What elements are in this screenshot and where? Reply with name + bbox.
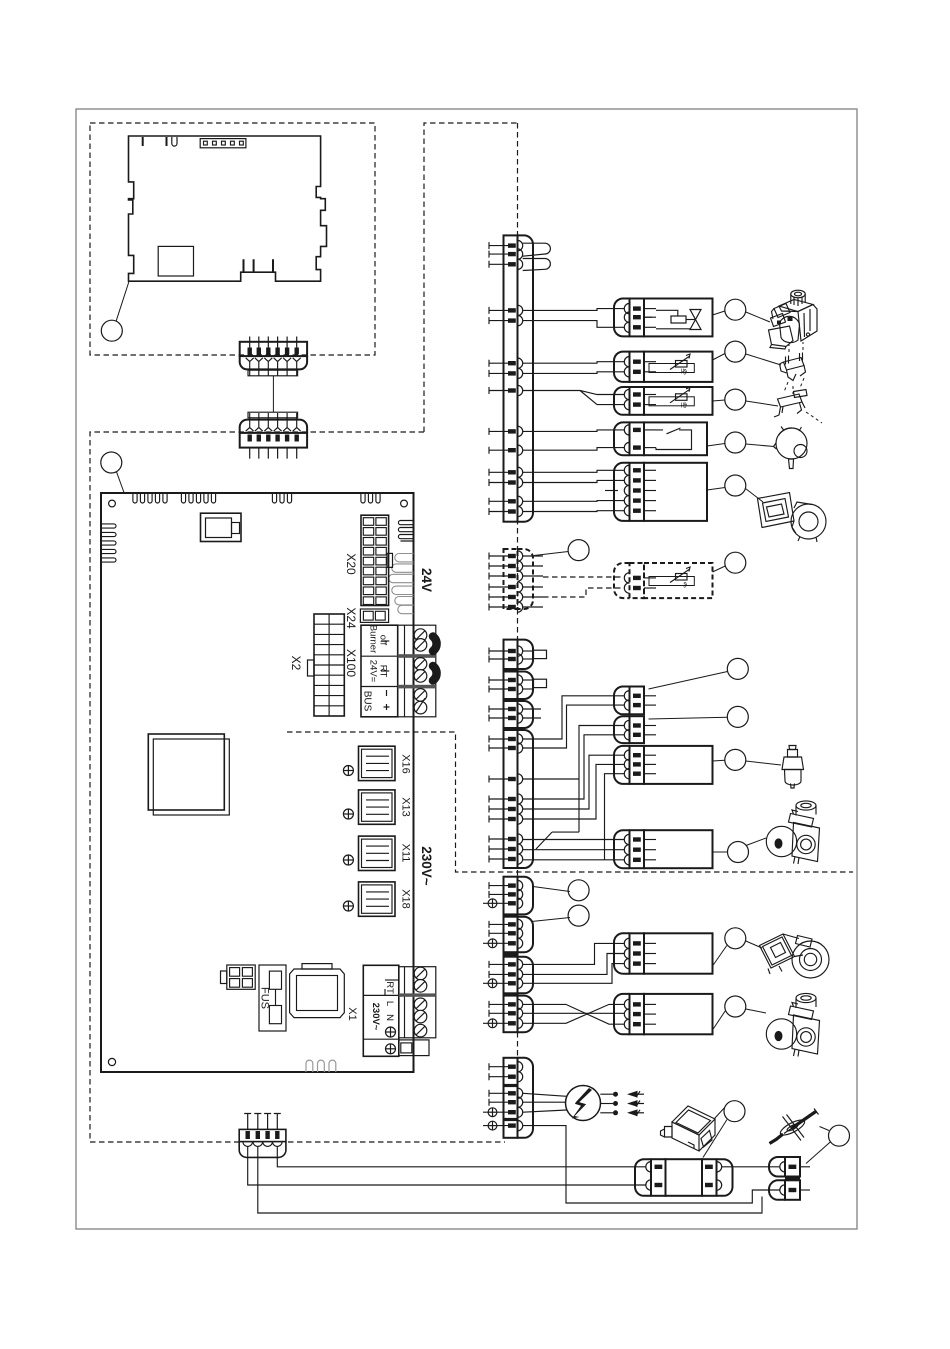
connector X38 shell xyxy=(518,957,534,994)
X36 pin xyxy=(483,898,523,908)
wire X35-1 to P7 xyxy=(523,696,625,739)
X40 pin xyxy=(489,1097,523,1107)
pressure switch plug pin 1 xyxy=(624,425,656,435)
leader P5-K5 xyxy=(707,488,725,491)
leader P3-K3 xyxy=(713,400,725,401)
fan 230V plug P11 pin 1 xyxy=(624,938,656,948)
callout circle 2 main board xyxy=(101,452,122,473)
fan 230V plug P11 pin 2 xyxy=(624,948,656,958)
leader K11-pump xyxy=(746,838,766,846)
module A1 top edge pin tab pair xyxy=(166,137,168,146)
display connector X43 mask xyxy=(239,1139,287,1145)
callout circle K5 fan xyxy=(725,475,746,496)
svg-text:X18: X18 xyxy=(400,889,412,909)
ignition electrode component xyxy=(770,1109,819,1144)
svg-text:N: N xyxy=(384,1014,395,1021)
pump plug P10 shell xyxy=(614,830,630,868)
header X24 xyxy=(360,609,388,622)
svg-text:24V: 24V xyxy=(419,568,434,592)
X38 pin xyxy=(489,959,523,969)
earth X18 xyxy=(343,901,353,911)
main board outline xyxy=(101,493,414,1072)
svg-text:RT: RT xyxy=(378,665,389,678)
X40 pin xyxy=(489,1062,523,1072)
connector B2 pins xyxy=(250,448,297,459)
header X20 xyxy=(361,515,389,605)
fan plug pin 2 xyxy=(624,475,656,485)
valve plug P9 shell xyxy=(614,746,630,784)
X51 pin 13 xyxy=(489,496,523,506)
mounting hole top right xyxy=(401,500,408,507)
pump component P10 xyxy=(766,801,819,864)
dashed enclosure accessory module box xyxy=(90,123,375,355)
gas valve plug pin 1 xyxy=(624,303,656,313)
connector separator xyxy=(503,1084,519,1087)
svg-text:FUS: FUS xyxy=(259,987,271,1009)
X32 pin 2 xyxy=(489,654,523,664)
connector X35 shell xyxy=(518,730,534,868)
jumper plug P8 shell xyxy=(614,716,630,743)
valve plug P9 pin 3 xyxy=(624,769,656,779)
wire X38-2 to P11 xyxy=(523,954,625,975)
callout circle K2 flue sensor xyxy=(725,341,746,362)
callout circle K16 transformer xyxy=(724,1101,745,1122)
X34 pin 1 xyxy=(489,704,523,714)
pump 230V plug P12 pin 3 xyxy=(624,1019,656,1029)
dashed main control box boundary xyxy=(90,432,505,1142)
lightning bolt xyxy=(572,1088,592,1119)
pump 230V plug P12 pin 1 xyxy=(624,999,656,1009)
X35 pin 4 xyxy=(489,794,523,804)
wire X35-8 to P10 xyxy=(523,849,625,851)
X35 pin 5 xyxy=(489,804,523,814)
solder comb group 4 xyxy=(361,493,380,503)
solder comb left edge xyxy=(101,524,116,562)
adapter chain housing xyxy=(666,1159,703,1196)
leader K17 to electrode xyxy=(820,1127,830,1131)
X34 pin 2 xyxy=(489,713,523,723)
wire X51-8 fork to sensor plug xyxy=(523,391,625,405)
flue sensor plug pin 1 xyxy=(624,357,656,367)
callout circle K7 outdoor sensor xyxy=(725,552,746,573)
outdoor sensor plug pin 1 xyxy=(624,573,656,583)
svg-text:230V~: 230V~ xyxy=(370,1003,381,1031)
svg-text:X2: X2 xyxy=(289,656,303,671)
terminal block BUS RT xyxy=(361,625,398,717)
leader line callout 1 xyxy=(116,282,129,321)
solder comb group 1 xyxy=(133,493,167,503)
wire X40 to spark generator a xyxy=(523,1093,567,1096)
dashed 24V column boundary xyxy=(424,123,518,432)
screw block upper xyxy=(398,625,436,717)
shorting link 1 xyxy=(523,243,551,256)
wire X38-3 to P11 xyxy=(523,964,625,984)
earth X11 xyxy=(343,855,353,865)
spark generator symbol xyxy=(566,1086,601,1121)
wire X33 jumper stub b xyxy=(523,688,534,690)
wire X40 to spark generator c xyxy=(523,1110,567,1112)
leader K1-valve xyxy=(746,312,770,322)
leader P11-K14 xyxy=(713,946,727,967)
wire X35-4 to P8 xyxy=(523,735,625,799)
fan 230V plug P11 shell xyxy=(614,933,630,973)
connector B1 shell xyxy=(240,356,307,369)
edge castellation fingers xyxy=(389,554,414,614)
X39 pin xyxy=(489,999,523,1009)
gas valve plug housing xyxy=(644,299,713,337)
chain left pin xyxy=(646,1162,651,1172)
connector B2 contacts xyxy=(246,413,301,431)
transformer block xyxy=(148,734,224,810)
jumper plug P8 pin 2 xyxy=(624,730,656,740)
fan plug housing xyxy=(644,463,707,521)
capacitor block xyxy=(290,964,345,1018)
X51 pin 14 xyxy=(489,506,523,516)
valve plug P9 housing xyxy=(644,746,713,784)
leader K16 to chain xyxy=(703,1120,727,1158)
connector X40 shell xyxy=(518,1058,534,1138)
module A1 top edge pin tab xyxy=(142,137,144,146)
X51 pin 4 xyxy=(489,305,523,315)
wire X34 stub a xyxy=(523,708,541,710)
svg-text:X24: X24 xyxy=(344,607,358,629)
wire X34 stub b xyxy=(523,717,541,719)
adapter chain left shell xyxy=(635,1159,651,1196)
module A1 chip xyxy=(158,246,193,276)
pressure switch plug pin 2 xyxy=(624,442,656,452)
callout circle K8 jumper1 xyxy=(727,658,748,679)
callout circle K1 gas valve xyxy=(725,299,746,320)
svg-text:230V~: 230V~ xyxy=(419,846,434,886)
chain left pin xyxy=(646,1180,651,1190)
X35 pin 1 xyxy=(489,734,523,744)
X35 pin 8 xyxy=(489,844,523,854)
module A1 bottom pins xyxy=(244,259,274,272)
leader line callout 2 xyxy=(117,472,125,493)
X38 pin xyxy=(483,978,523,988)
X43 pins xyxy=(244,1114,281,1130)
RP separator xyxy=(785,1177,800,1180)
wire X51-9 to pressure switch xyxy=(523,430,625,432)
connector separator xyxy=(503,993,519,996)
spark arrow xyxy=(629,1112,644,1114)
solenoid actuator component xyxy=(782,746,804,789)
module A1 header pin 3 xyxy=(222,141,226,145)
connector separator xyxy=(503,669,519,672)
callout circle K11 pump xyxy=(728,842,749,863)
chain right pin xyxy=(717,1162,722,1172)
X32 pin 1 xyxy=(489,646,523,656)
dashed 230V zone divider left xyxy=(287,732,853,872)
outdoor sensor plug housing xyxy=(644,563,713,598)
X36 pin xyxy=(489,889,523,899)
flanged pump component P11 xyxy=(760,934,830,978)
screw 4 xyxy=(414,670,427,683)
callout circle K12 xyxy=(568,880,589,901)
X31 pin 2 xyxy=(489,561,523,571)
module A1 header pin 5 xyxy=(240,141,244,145)
thermistor symbol P6 xyxy=(649,577,694,586)
module A1 header connector xyxy=(200,139,246,148)
dashed wire X31 to outdoor sensor b xyxy=(543,588,625,597)
spark output wire xyxy=(600,1112,613,1114)
leader K17 to plug xyxy=(806,1142,831,1164)
leader P10-K11 xyxy=(713,851,728,853)
screw X1-5 xyxy=(414,1024,427,1037)
spark arrow xyxy=(629,1103,644,1105)
callout circle K14 fan230 xyxy=(725,928,746,949)
switch contact symbol xyxy=(656,428,692,450)
lower block X1 xyxy=(399,1040,429,1056)
screw 1 xyxy=(414,629,427,642)
dashed net 24V rail vertical xyxy=(517,123,519,1058)
callout circle 1 module xyxy=(101,320,122,341)
leader K5-fan xyxy=(746,489,764,503)
wire hook 1 xyxy=(433,637,437,652)
fuse holder FUS xyxy=(259,965,286,1031)
earth X1 row2 xyxy=(386,1027,396,1037)
X31 pin 1 xyxy=(489,551,523,561)
X35 pin 7 xyxy=(489,834,523,844)
jumper plug P7 pin 2 xyxy=(624,700,656,710)
relay connector X11 xyxy=(359,836,396,870)
adapter chain right bar xyxy=(702,1159,717,1196)
svg-text:μ: μ xyxy=(681,402,685,408)
thermistor symbol P3 xyxy=(649,397,694,406)
X37 pin xyxy=(483,938,523,948)
relay connector X18 xyxy=(359,882,396,916)
wire X51-5 to gas valve plug xyxy=(523,321,625,328)
module A1 header pin 1 xyxy=(204,141,208,145)
wire X32 jumper stub b xyxy=(523,658,534,660)
connector B2 bar xyxy=(240,433,307,448)
outdoor sensor plug pin 2 xyxy=(624,583,656,593)
wire chain to electrode plug xyxy=(722,1166,780,1168)
leader P4-K4 xyxy=(707,444,725,447)
spark output wire xyxy=(600,1093,613,1095)
screw X1-1 xyxy=(414,967,427,980)
flue sensor plug shell xyxy=(614,352,630,382)
X38 pin xyxy=(489,969,523,979)
minus sign xyxy=(386,690,388,696)
electrode plug RP1 shell xyxy=(769,1157,785,1177)
pump plug P10 pin 2 xyxy=(624,845,656,855)
wire X33 jumper stub a xyxy=(523,679,534,681)
phone jack connector xyxy=(201,513,242,541)
gas valve coil symbol xyxy=(656,310,678,316)
X37 pin xyxy=(489,928,523,938)
earth X13 xyxy=(343,809,353,819)
wire X32 jumper stub a xyxy=(523,650,534,652)
screw block X1 xyxy=(399,967,436,1038)
pump plug P10 housing xyxy=(644,830,713,868)
connector B1 pins xyxy=(250,337,297,357)
X35 pin 3 xyxy=(489,774,523,784)
connector separator xyxy=(503,727,519,730)
shorting link 2 xyxy=(523,259,551,271)
wire X39-1 cross to P12 xyxy=(523,1004,625,1024)
wire X51-4 to gas valve plug xyxy=(523,309,625,311)
svg-text:24V=: 24V= xyxy=(368,660,379,683)
connector B1 bar xyxy=(240,342,307,356)
heating sensor plug housing xyxy=(644,387,713,415)
valve plug P9 pin 2 xyxy=(624,759,656,769)
fan component xyxy=(758,493,827,543)
air pressure switch component xyxy=(774,427,808,469)
border frame xyxy=(76,109,857,1229)
wire X43 long run xyxy=(258,1146,762,1213)
chain right pin xyxy=(717,1180,722,1190)
callout circle K15 pump230 xyxy=(725,996,746,1017)
X40 pin xyxy=(483,1107,523,1117)
electrode plug RP2 pin xyxy=(780,1185,785,1195)
wire X35-9 to P10 xyxy=(523,859,625,861)
svg-text:Burner: Burner xyxy=(368,625,379,654)
svg-text:μ: μ xyxy=(681,368,685,374)
jumper plug P7 pin 1 xyxy=(624,691,656,701)
display connector X43 shell xyxy=(239,1142,286,1158)
svg-text:ϑ: ϑ xyxy=(683,583,687,590)
jumper link X32 xyxy=(534,650,547,658)
connector separator xyxy=(503,914,519,917)
X40 pin xyxy=(489,1088,523,1098)
connector B2 base comb xyxy=(248,412,298,418)
mounting hole bottom left xyxy=(108,1058,115,1065)
electrode plug RP2 shell xyxy=(769,1180,785,1200)
callout circle K9 jumper2 xyxy=(727,706,748,727)
leader K3-clamp xyxy=(746,401,778,406)
X36 pin xyxy=(489,880,523,890)
X35 pin 2 xyxy=(489,743,523,753)
wire X40 earth to ignition plug xyxy=(523,1126,780,1203)
X51 pin 7 xyxy=(489,368,523,378)
wire X35-5 to P9 xyxy=(523,755,625,809)
fan plug shell xyxy=(614,463,630,521)
optional connector X31 shell xyxy=(518,549,534,609)
pump plug P10 pin 1 xyxy=(624,834,656,844)
screw 5 xyxy=(414,689,427,702)
X51 pin 6 xyxy=(489,358,523,368)
wire riser to P9 pin3 xyxy=(605,774,625,860)
jumper connector X32 shell xyxy=(518,640,534,669)
jumper plug P7 shell xyxy=(614,687,630,715)
X51 pin 1 xyxy=(489,240,523,250)
flue sensor plug pin 2 xyxy=(624,367,656,377)
leader X37-K13 xyxy=(532,918,571,922)
outdoor sensor plug shell xyxy=(614,563,630,598)
relay connector X16 xyxy=(359,746,396,780)
clip-on sensor component xyxy=(780,353,806,381)
X51 pin 8 xyxy=(489,385,523,395)
X51 pin 10 xyxy=(489,445,523,455)
connector separator xyxy=(503,952,519,956)
wire X51-13 to fan plug xyxy=(523,500,625,503)
X33 pin 1 xyxy=(489,675,523,685)
wire X51-11 to fan plug xyxy=(523,470,625,472)
screw X1-2 xyxy=(414,980,427,993)
leader K2-clamp xyxy=(746,354,781,365)
adapter chain right shell xyxy=(717,1159,733,1196)
assembly alignment dashes xyxy=(784,342,822,423)
leader K14-pump xyxy=(746,941,762,948)
earth X1 row3 xyxy=(386,1044,396,1054)
callout circle K13 xyxy=(568,905,589,926)
screw 3 xyxy=(414,658,427,671)
leader K4-switch xyxy=(746,444,774,447)
ignition transformer component xyxy=(661,1106,716,1151)
X51 pin 3 xyxy=(489,259,523,269)
pump 230V plug P12 shell xyxy=(614,994,630,1034)
accessory module A1 board outline xyxy=(129,136,327,281)
wire hook 2 xyxy=(433,666,437,681)
wire X51-6 to flue sensor xyxy=(523,362,625,364)
X35 pin 6 xyxy=(489,814,523,824)
X31 pin right stubs xyxy=(523,556,543,607)
stub gas valve plug pin 2 xyxy=(644,316,652,318)
mounting hole top left xyxy=(109,500,116,507)
wire X40 to spark generator b xyxy=(523,1101,566,1103)
fan 230V plug P11 housing xyxy=(644,933,713,973)
leader P6-K7 xyxy=(713,566,726,572)
connector X37 shell xyxy=(518,917,534,953)
X31 pin 5 xyxy=(489,592,523,602)
X33 pin 2 xyxy=(489,684,523,694)
X51 pin 11 xyxy=(489,467,523,477)
fan plug pin 1 xyxy=(624,465,656,475)
svg-text:BUS: BUS xyxy=(362,691,373,712)
gas valve plug shell xyxy=(614,299,630,337)
screw X1-3 xyxy=(414,998,427,1011)
leader P9-K10 xyxy=(713,759,725,762)
leader K10-actuator xyxy=(746,761,781,765)
svg-text:off: off xyxy=(378,635,389,646)
jumper link X33 xyxy=(534,679,547,687)
clip-on sensor component 2 xyxy=(774,390,807,418)
svg-text:X1: X1 xyxy=(346,1007,358,1020)
X39 pin xyxy=(483,1018,523,1028)
svg-text:X100: X100 xyxy=(344,649,358,677)
wire X43 to chain pin1 xyxy=(277,1146,646,1166)
pump 230V plug P12 housing xyxy=(644,994,713,1034)
leader P1-K1 xyxy=(713,311,725,315)
X20 side tab xyxy=(387,553,393,567)
leader X31-K6 xyxy=(534,552,568,556)
wire X35-2 to P7 xyxy=(523,705,625,748)
leader P8-K9 xyxy=(649,717,728,719)
connector B1 base comb xyxy=(248,370,298,376)
wire X35-7 to P10 xyxy=(523,839,625,841)
X40 pin earth xyxy=(483,1120,523,1130)
wire X38-1 to P11 xyxy=(523,943,625,964)
board bottom contact loops xyxy=(306,1060,336,1072)
wire X43 to chain pin2 xyxy=(248,1146,646,1185)
X31 pin 3 xyxy=(489,571,523,581)
X35 pin 9 xyxy=(489,854,523,864)
X39 pin xyxy=(489,1008,523,1018)
stub fan plug pin 3 xyxy=(605,490,618,492)
leader P7-K8 xyxy=(649,672,728,690)
wire link B1 to B2 xyxy=(272,376,274,412)
harness connector X51 shell xyxy=(518,235,534,521)
spark arrow xyxy=(629,1093,644,1095)
callout circle K4 pressure switch xyxy=(725,432,746,453)
gas valve component xyxy=(769,290,818,349)
X51 pin 5 xyxy=(489,315,523,325)
jumper connector X33 shell xyxy=(518,672,534,700)
leader P2-K2 xyxy=(713,354,725,361)
connector B2 shell xyxy=(240,420,307,433)
wire X35-6 to P9 xyxy=(523,764,625,819)
